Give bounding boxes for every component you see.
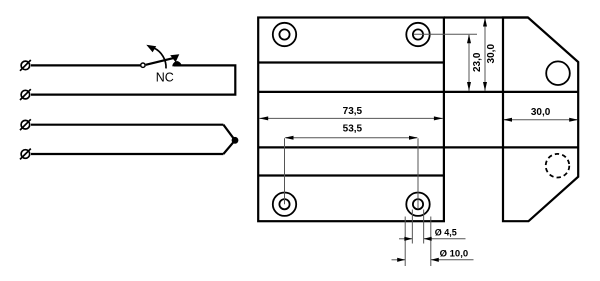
svg-text:23,0: 23,0 [472, 52, 483, 72]
svg-text:53,5: 53,5 [343, 123, 363, 134]
svg-text:Ø 4,5: Ø 4,5 [435, 228, 457, 238]
svg-text:NC: NC [156, 71, 174, 85]
svg-text:73,5: 73,5 [343, 106, 363, 117]
svg-text:30,0: 30,0 [486, 44, 497, 64]
svg-text:30,0: 30,0 [531, 107, 551, 118]
svg-text:Ø 10,0: Ø 10,0 [440, 248, 469, 259]
